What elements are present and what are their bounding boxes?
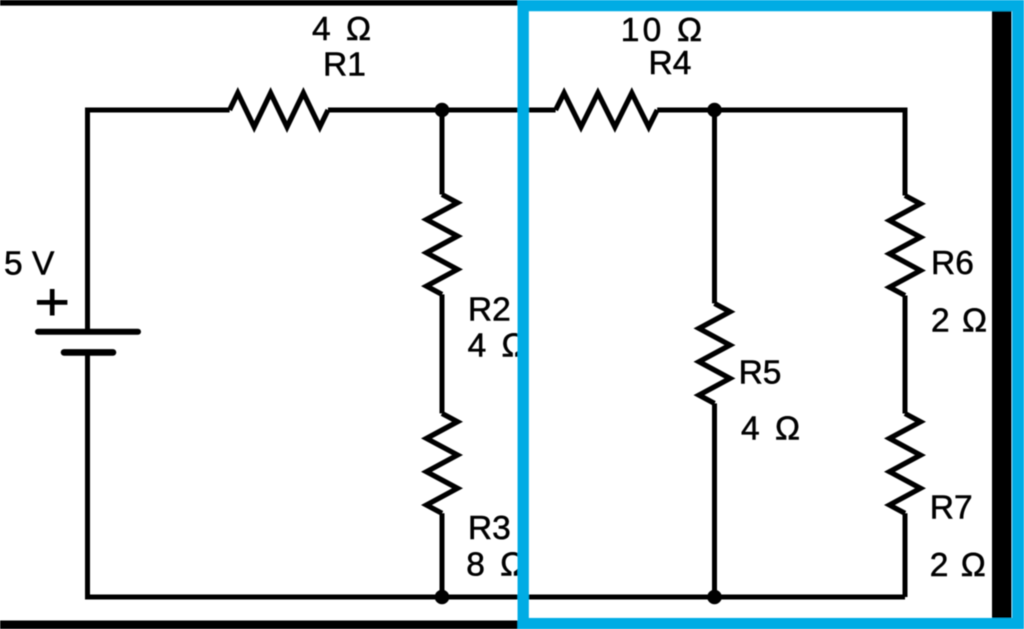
svg-text:2 Ω: 2 Ω <box>930 547 987 584</box>
node bottom-middle <box>435 590 450 605</box>
svg-text:R3: R3 <box>468 510 511 547</box>
svg-text:R1: R1 <box>323 46 366 83</box>
resistor R4 <box>556 93 658 127</box>
wire R3 to bottom node <box>440 513 445 597</box>
resistor R5 <box>699 303 730 403</box>
svg-text:5 V: 5 V <box>4 245 55 282</box>
wire node to R5 <box>712 110 717 303</box>
svg-text:4 Ω: 4 Ω <box>312 11 374 48</box>
svg-text:2 Ω: 2 Ω <box>931 302 988 339</box>
resistor R6 <box>890 196 921 296</box>
battery plus sign <box>37 289 68 316</box>
battery V1 positive plate <box>38 329 138 335</box>
wire battery to R1 (top-left corner) <box>88 110 230 332</box>
resistor R1 <box>230 93 328 127</box>
svg-text:R5: R5 <box>739 355 782 392</box>
wire R7 to bottom rail <box>903 513 908 597</box>
bottom border bar <box>0 621 1024 629</box>
wire node to R2 <box>440 110 445 195</box>
svg-text:R7: R7 <box>930 490 973 527</box>
node top-middle <box>435 103 450 118</box>
wire R1 to R4 <box>328 108 556 113</box>
wire R5 to bottom node <box>712 403 717 597</box>
node top-R5 <box>707 103 722 118</box>
right border bar <box>992 0 1012 629</box>
highlight rectangle right-edge sliver <box>1022 0 1024 629</box>
svg-text:10 Ω: 10 Ω <box>621 12 705 49</box>
resistor R3 <box>427 413 458 513</box>
highlight rectangle <box>523 6 1018 624</box>
resistor R2 <box>427 195 458 295</box>
svg-text:R4: R4 <box>649 45 692 82</box>
battery V1 negative plate <box>64 349 113 356</box>
wire R2 to R3 <box>440 294 445 413</box>
resistor R7 <box>890 414 921 514</box>
svg-text:4 Ω: 4 Ω <box>741 411 803 448</box>
svg-text:R2: R2 <box>468 292 511 329</box>
wire R4 to R6 (top-right corner) <box>657 110 905 196</box>
top border bar <box>0 0 1024 6</box>
svg-text:R6: R6 <box>931 245 974 282</box>
wire battery to bottom rail <box>88 352 906 597</box>
wire R6 to R7 <box>903 296 908 414</box>
node bottom-R5 <box>707 590 722 605</box>
